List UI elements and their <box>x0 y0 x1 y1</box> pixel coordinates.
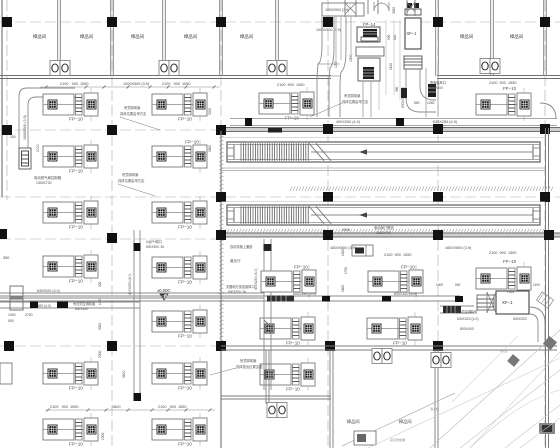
faint diagonal 5 <box>452 336 518 402</box>
duct damper on duct y118 a <box>396 118 404 126</box>
fan coil unit FP-10 c1r2 <box>43 140 98 174</box>
svg-text:800: 800 <box>393 34 397 40</box>
svg-text:FP−10: FP−10 <box>69 279 83 284</box>
rotated diffuser b <box>543 336 557 350</box>
svg-text:具体放出位置见图: 具体放出位置见图 <box>236 364 263 369</box>
svg-text:1600X500 (3.9): 1600X500 (3.9) <box>445 246 472 250</box>
svg-text:吊顶式空调机组: 吊顶式空调机组 <box>455 309 478 314</box>
top room partition wall w6 <box>436 0 439 76</box>
grid line row-A horizontal <box>0 21 560 23</box>
column C5 <box>433 192 443 202</box>
svg-text:FP−10: FP−10 <box>178 225 192 230</box>
svg-text:2100 900 1550: 2100 900 1550 <box>158 405 187 409</box>
svg-text:630X250 (4.0): 630X250 (4.0) <box>433 120 458 124</box>
svg-text:800X400: 800X400 <box>75 307 88 311</box>
leader line 2 <box>118 184 155 196</box>
faint diagonal 4 <box>470 352 560 448</box>
row E wall right part <box>221 346 557 350</box>
svg-text:2100 900 1550: 2100 900 1550 <box>60 82 89 86</box>
leader line 1 <box>120 117 160 130</box>
fan coil unit FP-10 c1r3 <box>43 196 98 230</box>
svg-text:1300X700: 1300X700 <box>376 231 391 235</box>
bottom room wall x268 <box>266 350 269 404</box>
vertical riser duct x137 <box>134 230 140 401</box>
vertical riser duct x268 lower <box>264 292 271 390</box>
grid line axis-3 vertical <box>220 0 222 448</box>
svg-text:FP−10: FP−10 <box>178 117 192 122</box>
svg-text:1000X500 (3.9): 1000X500 (3.9) <box>325 8 349 12</box>
svg-text:天圆地方变径接风口: 天圆地方变径接风口 <box>226 284 255 289</box>
svg-text:1800: 1800 <box>112 405 120 409</box>
svg-text:FP−10: FP−10 <box>393 341 407 346</box>
fan coil unit FP-10 c1r7 <box>43 413 98 447</box>
bottom right dark fixture <box>539 423 555 434</box>
svg-text:1200: 1200 <box>334 60 338 68</box>
duct splitter box upper <box>10 286 23 297</box>
svg-text:1000X500 (3.9): 1000X500 (3.9) <box>123 82 150 86</box>
svg-text:2100: 2100 <box>389 63 393 70</box>
fan coil unit FP-10 c5r1 <box>476 88 531 121</box>
vertical duct right of cluster <box>426 68 438 117</box>
hatched elbow piece <box>536 292 553 308</box>
column D3 <box>216 230 226 240</box>
column D5 <box>433 230 443 240</box>
svg-text:消火栓: 消火栓 <box>430 406 439 411</box>
column C6 <box>540 192 550 202</box>
svg-text:500X300, 3#: 500X300, 3# <box>146 245 164 249</box>
grid line axis-4 vertical <box>327 0 329 448</box>
top outer wall left <box>1 0 3 197</box>
XF-1 inlet duct to top <box>407 0 415 16</box>
svg-text:FP−10: FP−10 <box>178 280 192 285</box>
svg-text:500X250 (4.0): 500X250 (4.0) <box>293 292 316 296</box>
exhaust fan pair top room 3 <box>267 61 287 76</box>
grid line axis-5 vertical <box>437 0 439 448</box>
column C4 <box>323 192 333 202</box>
top room partition wall w4 <box>220 0 223 76</box>
duct damper on duct y118 b <box>245 118 252 126</box>
svg-text:XF−1: XF−1 <box>502 300 513 305</box>
column E2 <box>107 341 117 351</box>
svg-text:FP−10: FP−10 <box>69 225 83 230</box>
faint diagonal 2 <box>460 370 560 448</box>
svg-text:吊顶排风扇: 吊顶排风扇 <box>124 105 140 110</box>
svg-text:2000: 2000 <box>101 432 105 440</box>
svg-text:400X250 (4.0): 400X250 (4.0) <box>128 274 132 296</box>
duct damper left duct damper a <box>57 301 68 308</box>
svg-text:1300X700: 1300X700 <box>36 181 52 185</box>
svg-text:500: 500 <box>455 283 461 287</box>
fan coil unit FP-10 c2r4 <box>152 251 207 285</box>
escalator hall left wall <box>220 131 222 448</box>
svg-text:2500: 2500 <box>342 228 350 232</box>
svg-text:樟品间: 樟品间 <box>399 418 412 425</box>
svg-text:电动阀门警铃: 电动阀门警铃 <box>374 225 394 230</box>
svg-text:FP−10: FP−10 <box>294 265 308 270</box>
svg-text:具体位置由甲方定: 具体位置由甲方定 <box>118 178 145 183</box>
column E4 <box>325 341 335 351</box>
column A2 <box>107 17 117 27</box>
vertical riser duct x268 upper <box>264 239 271 271</box>
duct damper left duct damper b <box>30 302 38 309</box>
column E1 <box>4 341 14 351</box>
svg-text:FP−10: FP−10 <box>286 341 300 346</box>
hall tick texture strip 2 <box>224 229 544 233</box>
svg-text:电动排气扇控制箱: 电动排气扇控制箱 <box>34 175 62 180</box>
duct splitter box lower <box>10 299 23 310</box>
svg-text:FP−10: FP−10 <box>503 259 517 264</box>
unit FP-14 base box <box>356 47 384 56</box>
svg-text:FP−10: FP−10 <box>503 86 517 91</box>
risers under fresh air box <box>336 16 351 60</box>
escalator upper <box>227 142 540 162</box>
cluster duct pair top left of XF-1 <box>345 0 378 17</box>
fan coil unit FP-10 c2r2 <box>152 140 207 174</box>
column E3 <box>216 341 226 351</box>
svg-text:3000: 3000 <box>392 7 396 14</box>
bottom room wall y397 <box>221 396 331 399</box>
faint diagonal 6 <box>368 358 560 448</box>
hall line above band1 <box>221 137 545 139</box>
svg-text:1200: 1200 <box>341 249 345 256</box>
escalator hall right wall <box>546 128 549 448</box>
fan coil unit FP-10 c1r6 <box>43 357 98 391</box>
fan coil unit FP-10 c2r3 <box>152 196 207 230</box>
svg-text:樟品间: 樟品间 <box>33 33 46 40</box>
svg-text:FP−10: FP−10 <box>178 442 192 447</box>
tank drop duct <box>363 81 379 117</box>
grid line row-D horizontal left <box>0 238 221 240</box>
column B2 <box>107 125 117 135</box>
svg-text:5200: 5200 <box>208 108 212 115</box>
fan coil unit FP-10 c2r7 <box>152 413 207 447</box>
column B5 <box>433 124 443 134</box>
svg-text:具体位置由甲方定: 具体位置由甲方定 <box>342 99 369 104</box>
second duct into XF-1 <box>440 306 474 313</box>
striped damper lower duct <box>443 306 461 313</box>
svg-text:1100: 1100 <box>533 283 540 287</box>
svg-text:1元区: 1元区 <box>500 349 508 353</box>
grid line row-C horizontal <box>0 196 560 198</box>
fan coil unit FP-10 c4r5 <box>367 312 422 346</box>
top room partition wall w3 <box>163 0 166 76</box>
bottom room wall x437 <box>435 350 438 448</box>
trunk duct 630X520 horizontal <box>0 293 264 298</box>
svg-text:FP−10: FP−10 <box>69 386 83 391</box>
exhaust fan pair bottom room 3 <box>431 353 451 368</box>
wall x221 tick hatch <box>219 136 224 342</box>
top room partition wall w5 <box>276 0 279 76</box>
top rooms ceiling wall horizontal y77 left part <box>0 76 331 79</box>
cluster tank <box>358 58 380 81</box>
exhaust box on left riser <box>19 148 31 169</box>
svg-text:FP−10: FP−10 <box>178 334 192 339</box>
leader line 4 <box>210 368 236 375</box>
XF-1 bottom coupling <box>477 295 494 310</box>
svg-text:FP−10: FP−10 <box>285 116 299 121</box>
duct 400X250 over escalator hall <box>230 119 557 126</box>
svg-text:2000: 2000 <box>98 323 102 330</box>
svg-text:2000: 2000 <box>36 144 40 152</box>
exhaust fan pair top room 6 <box>480 59 500 74</box>
exhaust fan pair top room 2 <box>159 61 179 76</box>
grid line row-B horizontal left <box>0 129 228 131</box>
duct damper bottom duct b <box>322 296 330 302</box>
svg-text:350: 350 <box>3 256 9 260</box>
dim line bottom <box>45 409 215 412</box>
air handling unit XF-1 <box>405 18 421 49</box>
svg-text:1250: 1250 <box>427 101 435 105</box>
hall line below band1 a <box>221 167 545 169</box>
svg-text:1000: 1000 <box>436 283 443 287</box>
svg-text:营业厅: 营业厅 <box>230 258 241 263</box>
faint arc bottom right <box>470 390 560 448</box>
svg-text:FP−10: FP−10 <box>401 265 415 270</box>
svg-text:FP−10: FP−10 <box>286 387 300 392</box>
svg-text:800X400: 800X400 <box>430 86 443 90</box>
svg-text:2100 900 1550: 2100 900 1550 <box>384 253 411 257</box>
unit FP-14 box <box>357 27 380 42</box>
svg-text:2000: 2000 <box>98 350 102 358</box>
faint diagonal 3 <box>505 405 560 448</box>
rotated diffuser a <box>507 354 520 367</box>
fan coil unit FP-10 c3r5 <box>260 312 315 346</box>
svg-text:2100 900 1550: 2100 900 1550 <box>162 82 191 86</box>
column D1 <box>0 229 7 239</box>
hall line below band1 b <box>221 170 545 172</box>
fan coil unit FP-10 c3r1 <box>259 87 314 121</box>
svg-text:樟品间: 樟品间 <box>347 418 360 425</box>
fan coil unit FP-10 c1r4 <box>43 250 98 284</box>
leader line 3 <box>310 103 342 117</box>
column A4 <box>323 17 333 27</box>
svg-text:FP−10: FP−10 <box>185 140 199 145</box>
svg-text:2100 900 1550: 2100 900 1550 <box>277 83 304 87</box>
svg-text:吊顶排风扇: 吊顶排风扇 <box>240 358 256 363</box>
fan coil unit FP-10 c3r6 <box>260 358 315 392</box>
svg-text:自动扶梯上通道: 自动扶梯上通道 <box>230 244 253 249</box>
left fcu partial row6 <box>0 363 12 384</box>
column B4 <box>323 124 333 134</box>
exhaust fan pair top room 1 <box>50 61 70 76</box>
grid line axis-6 vertical <box>544 0 546 448</box>
duct damper riser x137 bottom <box>134 393 142 401</box>
column A6 <box>540 17 550 27</box>
svg-text:1750: 1750 <box>344 267 348 274</box>
grid line axis-2 vertical <box>111 0 113 448</box>
svg-text:900: 900 <box>387 34 391 40</box>
XF-1 top connector dark fittings <box>405 3 421 15</box>
damper cluster a <box>401 88 407 98</box>
XF-1 bottom unit <box>496 291 529 314</box>
hall line above band2 <box>221 201 545 203</box>
XF-1 drop duct elbow <box>406 69 436 112</box>
stair diagonal line <box>342 393 455 446</box>
svg-text:FP−10: FP−10 <box>178 386 192 391</box>
svg-text:3800: 3800 <box>122 370 126 378</box>
duct riser left 1000X500 with bend <box>19 88 75 169</box>
svg-text:630X320: 630X320 <box>513 317 527 321</box>
cluster duct bend big <box>317 17 346 117</box>
svg-text:630X520 (4.0): 630X520 (4.0) <box>37 289 60 293</box>
fan coil unit FP-10 c2r1 <box>152 88 207 122</box>
column B3 <box>216 125 226 135</box>
top room partition wall w1 <box>58 0 61 76</box>
wall band row D <box>221 233 560 237</box>
column B6 <box>540 124 550 134</box>
svg-text:850: 850 <box>414 101 420 105</box>
second duct left <box>0 302 140 308</box>
svg-text:接灰斑地漏: 接灰斑地漏 <box>390 437 405 442</box>
svg-text:FP−10: FP−10 <box>69 169 83 174</box>
svg-text:1000X500 (3.9): 1000X500 (3.9) <box>316 28 341 32</box>
fresh air duct box 1000X500 top <box>322 3 364 16</box>
column D4 <box>323 230 333 240</box>
svg-text:FP−14: FP−14 <box>363 22 376 27</box>
riser flex joint <box>264 320 271 333</box>
svg-text:150: 150 <box>10 135 16 139</box>
column D6 <box>544 230 554 240</box>
svg-text:7300: 7300 <box>507 290 514 294</box>
damper cluster b <box>428 84 436 97</box>
grid line axis-1 vertical <box>6 0 8 200</box>
top room partition wall w7 <box>491 0 494 76</box>
column E5 <box>433 341 443 351</box>
svg-text:2800: 2800 <box>208 145 212 152</box>
svg-text:800X400: 800X400 <box>460 327 474 331</box>
svg-text:表面接风口: 表面接风口 <box>430 80 446 85</box>
svg-text:2100 900 1550: 2100 900 1550 <box>489 81 516 85</box>
bottom room wall x331 <box>330 350 333 448</box>
svg-text:2100 900 1550: 2100 900 1550 <box>489 251 516 255</box>
svg-text:2700: 2700 <box>25 313 33 317</box>
grid line row-E horizontal <box>0 345 230 347</box>
svg-text:FP−10: FP−10 <box>69 117 83 122</box>
column B1 <box>2 125 12 135</box>
svg-text:吊顶排风扇: 吊顶排风扇 <box>344 93 360 98</box>
svg-text:1500: 1500 <box>349 54 353 62</box>
svg-text:樟品间: 樟品间 <box>80 33 93 40</box>
fan coil unit FP-10 c2r5 <box>152 305 207 339</box>
flex connector X <box>487 292 496 313</box>
svg-text:樟品间: 樟品间 <box>240 33 253 40</box>
svg-text:吊顶式空调机组: 吊顶式空调机组 <box>73 301 96 306</box>
duct damper XF-1 inlet upper <box>455 296 463 302</box>
column D2 <box>107 233 117 243</box>
cluster dim lines <box>386 20 400 100</box>
bottom center fixture <box>354 431 376 445</box>
svg-text:2100 900 1550: 2100 900 1550 <box>50 405 79 409</box>
duct damper bottom duct a <box>382 296 391 302</box>
svg-text:吊顶排风扇: 吊顶排风扇 <box>122 172 138 177</box>
duct hatch connector left end <box>267 296 294 302</box>
electric device box <box>352 245 373 256</box>
fan coil unit FP-10 c1r1 <box>43 88 98 122</box>
fan coil unit FP-10 c2r6 <box>152 357 207 391</box>
svg-text:樟品间: 樟品间 <box>460 33 473 40</box>
column A1 <box>2 17 12 27</box>
double door arc top <box>374 2 389 11</box>
right bend duct top <box>540 103 556 119</box>
XF-1 bottom drop curve <box>529 307 545 342</box>
svg-text:樟品间: 樟品间 <box>510 33 523 40</box>
svg-text:樟品间: 樟品间 <box>184 33 197 40</box>
svg-text:380: 380 <box>395 86 399 92</box>
column A3 <box>216 17 226 27</box>
svg-text:XF−1: XF−1 <box>407 31 418 36</box>
XF-1 outlet hatch box <box>404 56 422 69</box>
svg-text:X台PH风口: X台PH风口 <box>146 239 162 244</box>
svg-text:±0.000: ±0.000 <box>157 288 170 293</box>
svg-text:具体位置由甲方定: 具体位置由甲方定 <box>120 111 147 116</box>
fan coil unit FP-10 c3r4 <box>261 265 316 299</box>
column C3 <box>216 192 226 202</box>
long diagonal background line <box>430 330 560 448</box>
fan coil unit FP-10 c4r4 <box>368 265 423 299</box>
faint diagonal 7 <box>520 418 560 448</box>
escalator lower <box>227 205 540 225</box>
trunk duct 500X250 bottom <box>0 296 460 301</box>
duct damper riser x137 top <box>134 243 141 251</box>
column A5 <box>433 17 443 27</box>
svg-text:1600: 1600 <box>341 285 345 292</box>
riser damper x268 <box>264 244 272 251</box>
svg-text:630X320 (4.0): 630X320 (4.0) <box>457 317 479 321</box>
hatched damper on wall B <box>268 128 282 133</box>
top rooms ceiling wall horizontal y77 right part <box>437 76 560 79</box>
wall band row B right <box>221 128 560 132</box>
level mark plus-minus 0.000 <box>157 288 170 300</box>
svg-text:400X250 (4.0): 400X250 (4.0) <box>336 120 361 124</box>
top room partition wall w2 <box>111 0 114 76</box>
svg-text:900: 900 <box>98 281 102 287</box>
hall tick texture strip <box>290 187 553 192</box>
svg-text:500: 500 <box>8 319 14 323</box>
dimension line top-left <box>40 86 220 89</box>
svg-text:FP−10: FP−10 <box>69 442 83 447</box>
svg-text:1000X500 (3.9): 1000X500 (3.9) <box>23 115 27 140</box>
svg-text:630X320 (4.0): 630X320 (4.0) <box>394 292 417 296</box>
exhaust fan pair bottom room 2 <box>267 403 287 418</box>
exhaust fan pair bottom room 1 <box>372 349 392 364</box>
svg-text:1000: 1000 <box>8 313 16 317</box>
top room partition wall w8 <box>544 0 547 76</box>
svg-text:樟品间: 樟品间 <box>131 33 144 40</box>
fan coil unit FP-10 c5r4 <box>476 262 531 295</box>
